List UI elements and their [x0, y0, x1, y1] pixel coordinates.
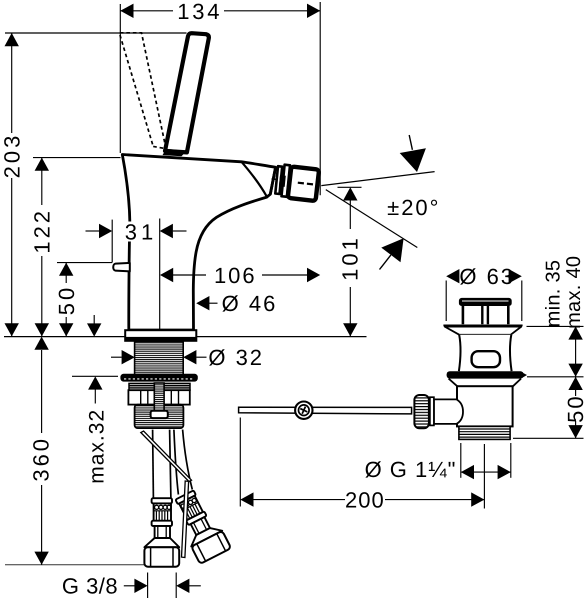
- svg-text:200: 200: [345, 488, 385, 513]
- right hose: [174, 430, 179, 495]
- nut band 3: [135, 405, 184, 429]
- spout joint line: [242, 162, 267, 197]
- aerator centerline dashes: [272, 178, 278, 181]
- svg-text:Ø G 1¼": Ø G 1¼": [365, 457, 457, 482]
- svg-text:max. 40: max. 40: [563, 256, 585, 329]
- dim 360: [41, 350, 43, 433]
- dim 31: [111, 220, 113, 263]
- svg-text:122: 122: [30, 208, 55, 254]
- drain lower shoulder: [449, 379, 458, 387]
- drain flange seal: [447, 371, 524, 378]
- dim max32: [93, 315, 95, 324]
- handle lever: [165, 33, 209, 152]
- pull rod diagonal: [141, 431, 192, 482]
- hose-end reference line: [5, 564, 151, 566]
- left hose connector G3/8: [152, 498, 172, 503]
- dim min35 max40: [527, 325, 584, 327]
- shank thread: [135, 342, 184, 375]
- svg-text:min. 35: min. 35: [543, 260, 565, 328]
- nut screw rod: [154, 383, 164, 411]
- drain plug cap: [459, 298, 512, 306]
- dim 122: [33, 157, 121, 159]
- handle alt position dashed: [119, 33, 166, 149]
- nut screw head: [151, 411, 168, 418]
- svg-text:101: 101: [338, 235, 363, 281]
- aerator body: [288, 167, 319, 201]
- aerator ring 2: [282, 165, 291, 197]
- dim 106: [173, 274, 206, 276]
- drain port ring: [430, 397, 434, 425]
- dim 101: [338, 186, 362, 188]
- svg-text:203: 203: [0, 133, 25, 179]
- svg-text:106: 106: [214, 263, 257, 288]
- drain cone: [445, 327, 522, 335]
- dim dia 63: [445, 281, 447, 322]
- svg-text:134: 134: [177, 0, 222, 24]
- svg-text:Ø 63: Ø 63: [459, 264, 515, 289]
- faucet body outline: [122, 155, 275, 331]
- side lever: [113, 263, 130, 272]
- handle pivot wedge: [163, 149, 187, 157]
- faucet centerline: [159, 219, 161, 331]
- svg-text:max.32: max.32: [86, 409, 109, 484]
- overflow window: [472, 351, 500, 367]
- dim 50 drain: [575, 377, 577, 396]
- svg-text:Ø 32: Ø 32: [208, 345, 264, 370]
- svg-text:50: 50: [54, 285, 79, 315]
- dim G 1-1/4: [460, 443, 462, 478]
- nut band 1: [129, 383, 158, 390]
- dim dia 32: [111, 356, 122, 358]
- drain port knurled nut: [414, 395, 429, 428]
- dim 50: [57, 262, 112, 264]
- drain plug legs: [462, 306, 465, 324]
- dim 200: [239, 418, 241, 507]
- aerator ring 1: [275, 166, 282, 194]
- flange washer: [120, 374, 197, 382]
- drain upper body: [459, 335, 512, 371]
- drain rim: [443, 324, 522, 326]
- aerator joint block: [279, 175, 286, 187]
- base escutcheon plate: [125, 330, 196, 341]
- svg-text:±20°: ±20°: [387, 195, 440, 220]
- svg-text:Ø 46: Ø 46: [222, 291, 278, 316]
- svg-text:50: 50: [563, 394, 587, 422]
- drain lower body: [457, 386, 513, 426]
- rod pivot ball: [295, 402, 312, 419]
- svg-text:31: 31: [125, 219, 157, 244]
- dim dia 46: [208, 302, 218, 304]
- dim 203: [5, 32, 187, 34]
- dim 134: [119, 4, 121, 153]
- right hose connector G3/8: [169, 487, 231, 564]
- pop-up rod: [239, 407, 412, 414]
- swivel angle annotation: [321, 172, 434, 186]
- nut band 2 faces: [128, 390, 189, 404]
- drain side port: [434, 399, 463, 424]
- mounting surface line: [4, 336, 367, 338]
- spout end face: [270, 167, 275, 194]
- left hose: [152, 430, 155, 499]
- svg-text:G 3/8: G 3/8: [62, 574, 118, 599]
- drain bottom thread: [459, 426, 510, 439]
- pull rod strip: [182, 481, 189, 558]
- dim G3/8: [147, 573, 149, 599]
- svg-text:360: 360: [29, 436, 54, 482]
